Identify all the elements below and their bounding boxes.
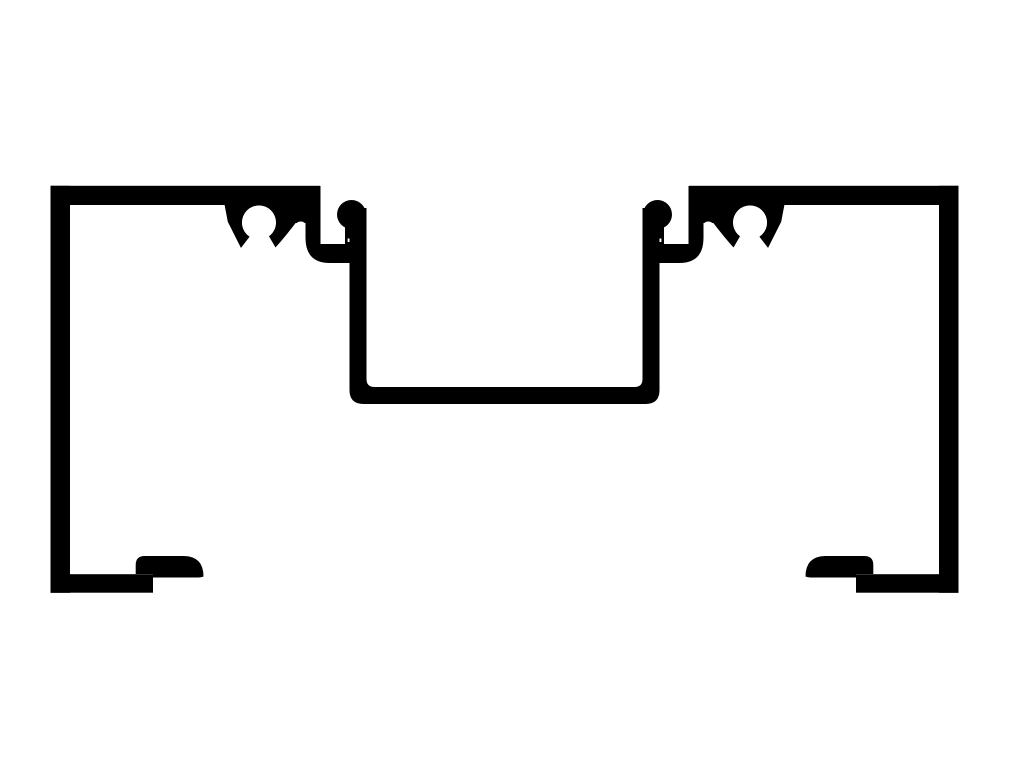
- bead ball right: [643, 200, 672, 229]
- bead ball left: [337, 200, 366, 229]
- white screw hole right: [733, 206, 767, 240]
- top rail left: [51, 186, 321, 205]
- screw boss left, right segment: [259, 205, 296, 248]
- white screw port opening left: [238, 222, 278, 252]
- bottom flange left: [51, 574, 154, 593]
- boss web left: [288, 186, 306, 223]
- left wall: [51, 186, 71, 593]
- screw boss left, left segment: [225, 205, 259, 248]
- right wall: [939, 186, 959, 593]
- bottom tab right: [806, 556, 874, 578]
- white screw port opening right: [731, 222, 771, 252]
- spline-slot column and ledge left: [306, 186, 351, 263]
- white clearance nick right: [659, 239, 662, 243]
- white screw hole left: [242, 206, 276, 240]
- bottom flange right: [856, 574, 959, 593]
- white notch right: [704, 222, 714, 273]
- central channel outer: [350, 208, 660, 404]
- bottom tab left: [136, 556, 204, 578]
- white spline slot right: [660, 168, 689, 244]
- white notch left: [296, 222, 306, 273]
- white clearance nick left: [348, 239, 351, 243]
- bead stem right: [659, 215, 665, 244]
- bead stem left: [345, 215, 351, 244]
- screw boss right, left segment: [713, 205, 750, 248]
- screw boss right, right segment: [750, 205, 784, 248]
- boss web right: [703, 186, 721, 223]
- central channel inner white: [367, 202, 643, 387]
- top rail right: [689, 186, 959, 205]
- spline-slot column and ledge right: [659, 186, 704, 263]
- white spline slot left: [321, 168, 350, 244]
